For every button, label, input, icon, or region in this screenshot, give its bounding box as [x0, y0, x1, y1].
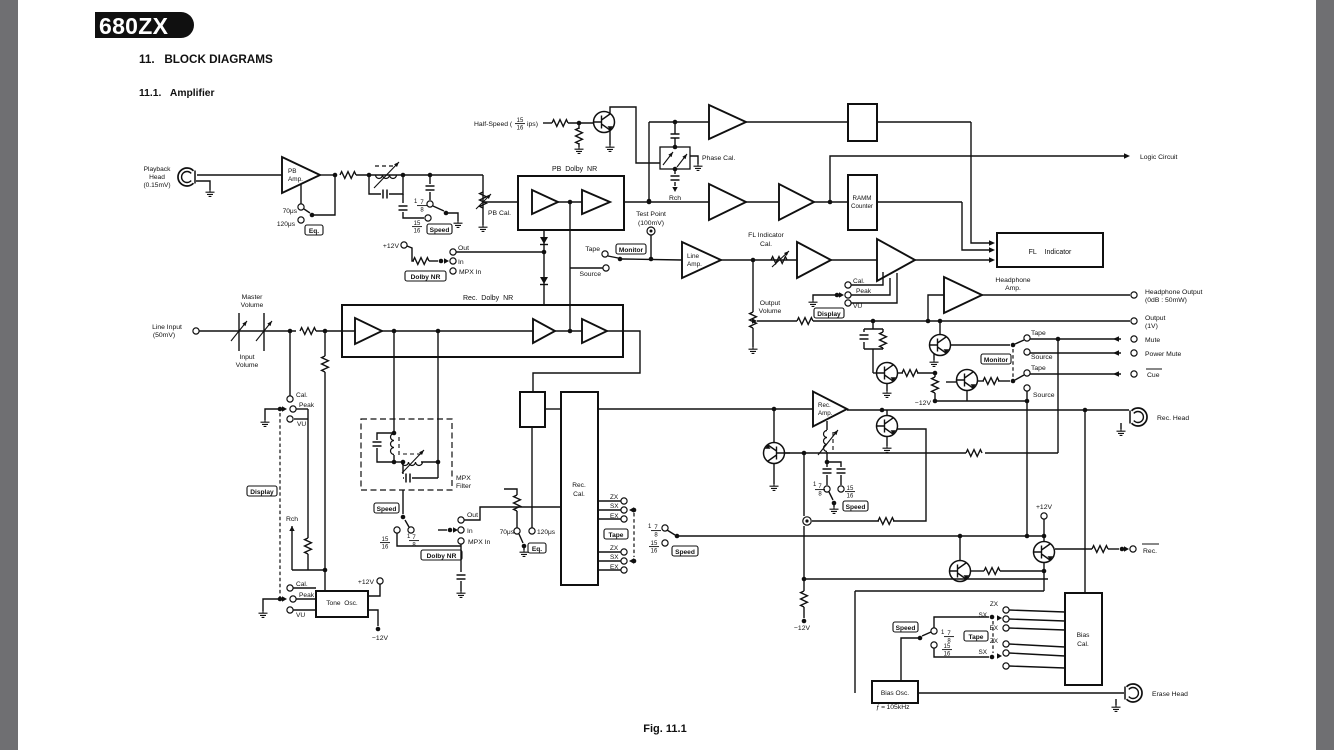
svg-text:(100mV): (100mV)	[638, 220, 664, 227]
svg-text:−12V: −12V	[915, 400, 932, 407]
svg-text:+12V: +12V	[383, 243, 400, 250]
svg-text:Filter: Filter	[456, 483, 472, 490]
svg-text:Master: Master	[242, 294, 264, 301]
svg-text:FL Indicator: FL Indicator	[748, 232, 784, 239]
svg-text:Line: Line	[687, 253, 700, 260]
svg-text:Rec. Dolby NR: Rec. Dolby NR	[463, 295, 513, 302]
svg-text:PB: PB	[288, 168, 297, 175]
svg-text:ZX: ZX	[990, 601, 999, 608]
svg-text:Rec.: Rec.	[572, 482, 586, 489]
svg-text:15: 15	[651, 541, 658, 547]
svg-text:Input: Input	[239, 354, 254, 361]
svg-text:Phase Cal.: Phase Cal.	[702, 155, 735, 162]
svg-text:Rec.: Rec.	[1143, 548, 1157, 555]
svg-text:Playback: Playback	[144, 166, 171, 173]
svg-text:Source: Source	[579, 271, 601, 278]
svg-text:16: 16	[847, 494, 854, 500]
svg-text:Peak: Peak	[856, 288, 872, 295]
svg-text:15: 15	[847, 486, 854, 492]
svg-text:−12V: −12V	[794, 625, 811, 632]
svg-text:Head: Head	[149, 174, 165, 181]
svg-text:(0dB : 50mW): (0dB : 50mW)	[1145, 297, 1187, 304]
svg-text:Output: Output	[760, 300, 781, 307]
svg-text:Cal.: Cal.	[296, 392, 308, 399]
svg-text:16: 16	[414, 229, 421, 235]
svg-text:Volume: Volume	[241, 302, 264, 309]
svg-text:ƒ = 105kHz: ƒ = 105kHz	[876, 704, 910, 711]
svg-text:In: In	[458, 259, 464, 266]
svg-text:Volume: Volume	[759, 308, 782, 315]
svg-text:VU: VU	[853, 303, 862, 310]
svg-text:−12V: −12V	[372, 635, 389, 642]
svg-text:SX: SX	[610, 503, 619, 510]
svg-text:16: 16	[651, 549, 658, 555]
svg-text:In: In	[467, 528, 473, 535]
svg-text:Out: Out	[467, 512, 478, 519]
svg-text:Tape: Tape	[585, 246, 600, 253]
svg-text:Output: Output	[1145, 315, 1166, 322]
svg-text:Cal.: Cal.	[853, 278, 865, 285]
svg-text:Speed: Speed	[430, 227, 450, 234]
svg-text:Amp.: Amp.	[288, 176, 303, 183]
svg-text:Fig. 11.1: Fig. 11.1	[643, 723, 686, 735]
svg-text:Out: Out	[458, 245, 469, 252]
svg-text:(50mV): (50mV)	[153, 332, 175, 339]
svg-text:Test Point: Test Point	[636, 211, 666, 218]
svg-text:Mute: Mute	[1145, 337, 1160, 344]
svg-text:SX: SX	[610, 554, 619, 561]
svg-text:Dolby NR: Dolby NR	[411, 274, 441, 281]
svg-text:MPX: MPX	[456, 475, 471, 482]
svg-text:Tape: Tape	[969, 634, 984, 641]
svg-text:Rec. Head: Rec. Head	[1157, 415, 1189, 422]
svg-text:SX: SX	[978, 612, 987, 619]
svg-text:Cal.: Cal.	[296, 581, 308, 588]
svg-text:RAMM: RAMM	[853, 195, 872, 202]
svg-text:70μs: 70μs	[500, 529, 515, 536]
svg-text:ZX: ZX	[990, 638, 999, 645]
svg-text:MPX In: MPX In	[468, 539, 491, 546]
svg-text:Eq.: Eq.	[532, 546, 542, 553]
svg-text:16: 16	[382, 545, 389, 551]
svg-text:15: 15	[414, 221, 421, 227]
svg-text:Amp.: Amp.	[687, 261, 702, 268]
svg-text:120μs: 120μs	[537, 529, 556, 536]
svg-text:680ZX: 680ZX	[99, 13, 169, 39]
svg-text:Tape: Tape	[1031, 365, 1046, 372]
svg-text:70μs: 70μs	[283, 208, 298, 215]
svg-text:Erase Head: Erase Head	[1152, 691, 1188, 698]
svg-text:SX: SX	[978, 649, 987, 656]
svg-text:Rch: Rch	[669, 195, 681, 202]
svg-text:Headphone Output: Headphone Output	[1145, 289, 1203, 296]
svg-text:ZX: ZX	[610, 494, 619, 501]
svg-text:Dolby NR: Dolby NR	[427, 553, 457, 560]
svg-text:Line Input: Line Input	[152, 324, 182, 331]
svg-text:ips): ips)	[527, 121, 538, 128]
svg-text:Rch: Rch	[286, 516, 298, 523]
svg-text:Peak: Peak	[299, 402, 315, 409]
svg-text:+12V: +12V	[358, 579, 375, 586]
svg-text:Amp.: Amp.	[1005, 285, 1021, 292]
svg-text:Display: Display	[817, 311, 841, 318]
svg-text:Cal.: Cal.	[760, 241, 772, 248]
svg-text:(1V): (1V)	[1145, 323, 1158, 330]
svg-text:Headphone: Headphone	[995, 277, 1030, 284]
svg-text:Display: Display	[250, 489, 274, 496]
svg-text:11. BLOCK DIAGRAMS: 11. BLOCK DIAGRAMS	[139, 53, 273, 66]
svg-text:Tone Osc.: Tone Osc.	[326, 600, 358, 607]
svg-text:Monitor: Monitor	[984, 357, 1009, 364]
svg-text:Volume: Volume	[236, 362, 259, 369]
svg-text:11.1. Amplifier: 11.1. Amplifier	[139, 88, 215, 99]
svg-text:PB Cal.: PB Cal.	[488, 210, 511, 217]
svg-text:Bias: Bias	[1077, 632, 1091, 639]
svg-text:VU: VU	[297, 421, 306, 428]
svg-text:Speed: Speed	[377, 506, 397, 513]
svg-text:15: 15	[382, 537, 389, 543]
svg-text:Cal.: Cal.	[1077, 641, 1089, 648]
svg-text:Half-Speed (: Half-Speed (	[474, 121, 513, 128]
svg-text:Speed: Speed	[896, 625, 916, 632]
svg-text:Source: Source	[1031, 354, 1053, 361]
svg-text:Bias Osc.: Bias Osc.	[881, 690, 909, 697]
svg-text:Peak: Peak	[299, 592, 315, 599]
svg-text:VU: VU	[296, 612, 305, 619]
svg-text:Power Mute: Power Mute	[1145, 351, 1181, 358]
svg-text:Eq.: Eq.	[309, 228, 319, 235]
svg-text:Logic Circuit: Logic Circuit	[1140, 154, 1178, 161]
svg-text:Speed: Speed	[846, 504, 866, 511]
svg-text:120μs: 120μs	[277, 221, 296, 228]
svg-text:PB Dolby NR: PB Dolby NR	[552, 166, 597, 173]
svg-text:Tape: Tape	[609, 532, 624, 539]
svg-text:MPX In: MPX In	[459, 269, 482, 276]
svg-text:Tape: Tape	[1031, 330, 1046, 337]
svg-text:Rec.: Rec.	[818, 402, 831, 409]
svg-text:15: 15	[944, 644, 951, 650]
svg-text:Counter: Counter	[851, 203, 873, 210]
svg-text:(0.15mV): (0.15mV)	[143, 182, 170, 189]
svg-text:Source: Source	[1033, 392, 1055, 399]
svg-text:15: 15	[517, 118, 524, 124]
svg-text:Monitor: Monitor	[619, 247, 644, 254]
svg-text:ZX: ZX	[610, 545, 619, 552]
svg-text:+12V: +12V	[1036, 504, 1053, 511]
svg-text:Amp.: Amp.	[818, 410, 833, 417]
svg-text:Cal.: Cal.	[573, 491, 585, 498]
svg-text:EX: EX	[989, 625, 998, 632]
svg-text:Speed: Speed	[675, 549, 695, 556]
svg-text:FL Indicator: FL Indicator	[1029, 249, 1072, 256]
svg-text:Cue: Cue	[1147, 372, 1160, 379]
svg-text:16: 16	[517, 126, 524, 132]
